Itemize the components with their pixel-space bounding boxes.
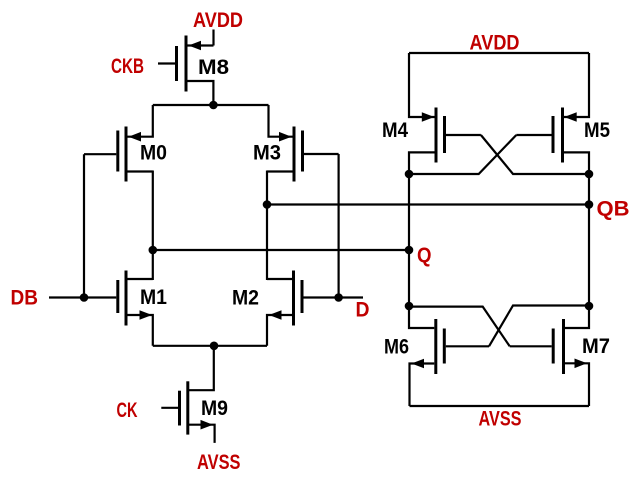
transistor M8 (PMOS tail, gate CKB) [158, 36, 214, 106]
transistor M1 (NMOS, input DB) [118, 271, 153, 346]
wire M3 drain to M2 drain vertical [266, 171, 268, 281]
junction M0/M1 drain on Q net [149, 246, 158, 255]
junction Q node [405, 246, 414, 255]
transistor M2 (NMOS, input D) [267, 271, 302, 346]
wire QB vertical (M5 drain down to M7 drain) [588, 173, 590, 307]
wire cross-couple M5 gate to M4 drain [409, 135, 516, 174]
wire DB input to M1 gate [49, 296, 116, 298]
junction M3/M2 drain on QB net [263, 200, 272, 209]
junction D / M3 gate [334, 293, 343, 302]
transistor M7 (NMOS, cross-coupled right) [510, 306, 589, 406]
svg-text:DB: DB [11, 287, 39, 310]
wire cross-couple M7 gate to M6 drain [409, 307, 510, 347]
wire AVSS rail (right) [410, 405, 590, 407]
svg-text:M5: M5 [584, 119, 610, 142]
svg-text:M3: M3 [253, 142, 281, 165]
svg-text:CK: CK [117, 399, 138, 422]
svg-text:M2: M2 [232, 287, 259, 310]
svg-text:AVSS: AVSS [197, 451, 241, 474]
transistor M5 (PMOS, cross-coupled right) [516, 53, 589, 174]
svg-text:M6: M6 [384, 336, 409, 359]
wire DB to M0 gate vertical [83, 154, 85, 297]
transistor M0 (PMOS, left input branch) [84, 105, 153, 182]
transistor M4 (PMOS, cross-coupled left) [409, 53, 481, 174]
wire M2 gate to D input [304, 296, 364, 298]
junction DB / M0 gate [80, 293, 89, 302]
junction tail / M9 drain [210, 342, 219, 351]
svg-text:M8: M8 [198, 56, 229, 79]
wire cross-couple M6 gate to M7 drain [489, 306, 589, 347]
svg-text:M1: M1 [140, 286, 167, 309]
junction M6 drain node [405, 302, 414, 311]
wire Q vertical (M4 drain down to M6 drain) [408, 173, 410, 307]
junction M5 drain node [585, 170, 594, 179]
svg-text:Q: Q [417, 244, 432, 267]
junction M7 drain node [585, 302, 594, 311]
wire AVDD rail (right) [409, 52, 589, 54]
transistor M6 (NMOS, cross-coupled left) [409, 306, 489, 406]
svg-text:M0: M0 [140, 142, 167, 165]
wire QB net (M3/M2 drains to right latch) [267, 203, 589, 205]
svg-text:D: D [356, 299, 370, 322]
wire Q net (M0/M1 drains to right latch) [153, 249, 409, 251]
svg-text:AVDD: AVDD [470, 32, 520, 55]
wire AVDD stub to M8 source [212, 30, 214, 46]
svg-text:AVDD: AVDD [193, 9, 243, 32]
svg-text:QB: QB [597, 198, 630, 221]
svg-text:AVSS: AVSS [479, 408, 522, 431]
junction QB node [585, 200, 594, 209]
svg-text:M7: M7 [582, 335, 610, 358]
wire M0 drain to M1 drain vertical [152, 171, 154, 281]
svg-text:M4: M4 [382, 119, 408, 142]
wire M3 gate to D vertical [338, 154, 340, 298]
junction M4 drain node [405, 170, 414, 179]
transistor M9 (NMOS tail, gate CK) [161, 346, 214, 443]
junction M8 drain / top rail [209, 101, 218, 110]
wire tail node (M1/M2 sources) [153, 345, 267, 347]
svg-text:CKB: CKB [111, 55, 144, 78]
transistor M3 (PMOS, right input branch) [267, 105, 339, 182]
wire top rail (M8 drain to M0/M3 sources) [153, 104, 269, 106]
wire cross-couple M4 gate to M5 drain [481, 135, 589, 174]
svg-text:M9: M9 [201, 397, 228, 420]
